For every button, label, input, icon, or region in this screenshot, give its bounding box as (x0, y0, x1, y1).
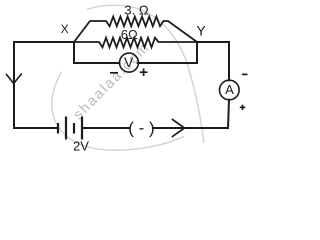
wire bottom middle segment (83, 127, 129, 129)
svg-text:2V: 2V (73, 139, 89, 154)
ammeter minus sign (242, 73, 248, 75)
ammeter plus sign (240, 105, 245, 110)
resistor R1 3 ohm branch: diagonal up, zigzag, diagonal down (74, 17, 197, 42)
svg-text:( - ): ( - ) (128, 119, 154, 138)
svg-text:3. Ω: 3. Ω (124, 3, 148, 18)
svg-text:V: V (124, 54, 134, 70)
wire bottom left segment (14, 127, 57, 129)
voltmeter minus sign (110, 72, 118, 74)
svg-text:6Ω: 6Ω (121, 27, 138, 42)
ammeter A1 circle (220, 80, 240, 100)
current arrow (down) on left wire (7, 74, 22, 84)
voltmeter branch wire right (138, 62, 197, 64)
watermark arcs (52, 5, 204, 150)
voltmeter V1 circle (120, 53, 139, 72)
current arrow (right) on bottom wire (173, 120, 185, 137)
voltmeter plus sign (140, 68, 148, 76)
wire bottom right segment (154, 127, 228, 129)
svg-text:X: X (61, 22, 69, 36)
svg-text:Y: Y (196, 23, 206, 39)
battery 2V plates (58, 117, 82, 140)
voltmeter branch wire left (74, 62, 119, 64)
resistor R2 6 ohm branch wire + zigzag (node X to node Y) (74, 38, 197, 48)
voltmeter branch stub left (73, 42, 75, 63)
wire right vertical lower (228, 100, 229, 128)
svg-text:A: A (225, 82, 234, 97)
wire right vertical upper (228, 42, 230, 80)
wire top-left horizontal (14, 41, 74, 43)
wire top-right horizontal (197, 41, 229, 43)
circuit wires and meters (7, 17, 240, 137)
voltmeter branch stub right (196, 42, 198, 63)
wire left vertical (13, 42, 15, 128)
